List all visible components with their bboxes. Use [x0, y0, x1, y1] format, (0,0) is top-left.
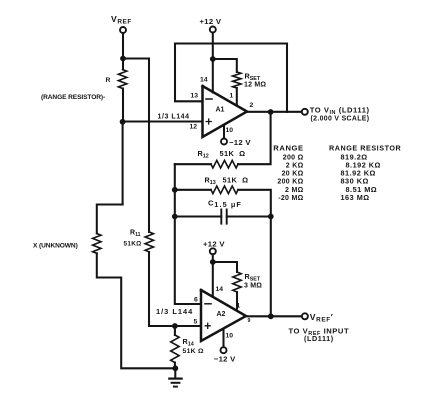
resistor RSET 12 Mohm: [233, 72, 267, 89]
pin label 12 (A1): [190, 123, 198, 130]
wire A2 output: [246, 315, 302, 317]
wire pin 5 of A2: [149, 325, 201, 327]
terminal TO VIN: [302, 105, 370, 122]
svg-text:12 MΩ: 12 MΩ: [244, 82, 266, 89]
svg-text:5: 5: [194, 318, 198, 325]
svg-text:+12 V: +12 V: [203, 239, 225, 248]
pin label 1 (A2): [237, 303, 241, 310]
svg-text:51K Ω: 51K Ω: [223, 175, 249, 184]
node +12V junction (A1): [210, 56, 216, 62]
node +12V junction (A2): [210, 259, 216, 265]
node C right junction: [268, 214, 274, 220]
svg-text:R11: R11: [130, 230, 141, 239]
pin label 10 (A1): [226, 127, 234, 134]
pin label 14 (A2): [216, 286, 224, 293]
pin label 6 (A2): [194, 296, 198, 303]
svg-text:10: 10: [226, 127, 234, 134]
wire junction to RSET (A1): [213, 59, 237, 72]
svg-text:(LD111): (LD111): [304, 334, 334, 343]
wire +12V to junction (A2): [212, 254, 214, 262]
ground: [169, 368, 181, 386]
svg-text:20 KΩ: 20 KΩ: [282, 171, 304, 178]
terminal +12V (A1): [200, 17, 222, 33]
svg-text:13: 13: [191, 93, 199, 100]
svg-text:1/3 L144: 1/3 L144: [156, 307, 193, 316]
node pin-12 junction: [120, 119, 126, 125]
svg-text:1: 1: [230, 92, 234, 99]
svg-text:−12 V: −12 V: [229, 138, 251, 147]
pin label 1 (A1): [230, 92, 234, 99]
terminal -12V (A1): [221, 138, 251, 147]
node ground junction: [172, 365, 178, 371]
pin label 13 (A1): [191, 93, 199, 100]
svg-text:R: R: [106, 77, 111, 84]
resistor R13 51K: [175, 175, 249, 193]
svg-text:VREF: VREF: [111, 14, 132, 26]
wire R11 to pin 5 of A2: [149, 252, 201, 326]
wire pin 10 of A2 to -12V: [222, 329, 224, 348]
svg-text:12: 12: [190, 123, 198, 130]
wire A1 output junction to R12: [238, 112, 271, 164]
node R13 left junction: [172, 187, 178, 193]
node A1 output junction: [268, 109, 274, 115]
svg-text:200 KΩ: 200 KΩ: [277, 179, 303, 186]
wire pin-12 junction to X resistor: [97, 205, 123, 234]
terminal VREF: [111, 14, 132, 33]
node A2 output junction: [268, 313, 274, 319]
label X (UNKNOWN): [33, 243, 78, 250]
svg-text:RANGE: RANGE: [273, 143, 303, 152]
wire C junction down to A2 output junction: [270, 217, 272, 317]
resistor R11 51K: [124, 230, 154, 253]
wire VREF terminal to junction: [122, 33, 124, 58]
node C left junction: [172, 214, 178, 220]
svg-text:2 MΩ: 2 MΩ: [285, 187, 304, 194]
svg-text:51KΩ: 51KΩ: [124, 241, 142, 248]
wire RSET to pin 1 of A2: [236, 292, 238, 309]
resistor R14 51K: [171, 326, 204, 368]
label (RANGE RESISTOR): [41, 94, 105, 101]
wire R13 to A2 output column: [238, 190, 271, 217]
wire pin-12 junction down to X branch: [122, 122, 124, 205]
svg-text:VREF′: VREF′: [310, 312, 334, 324]
svg-text:51K Ω: 51K Ω: [220, 149, 246, 158]
svg-text:A2: A2: [217, 311, 226, 318]
wire A1 feedback top rail: [175, 42, 287, 44]
svg-text:200 Ω: 200 Ω: [283, 154, 304, 161]
wire R to pin-12 junction: [122, 89, 124, 122]
resistor R12 51K: [198, 149, 246, 168]
wire pin 10 of A1 to -12V: [223, 125, 225, 139]
svg-text:R14: R14: [183, 337, 194, 348]
svg-text:−12 V: −12 V: [214, 355, 236, 364]
node pin-5 junction: [172, 323, 178, 329]
wire pin-12 junction to A1 + input: [123, 120, 203, 122]
pin label 14 (A1): [200, 77, 208, 84]
resistor RSET 3 Mohm: [233, 272, 262, 292]
wire RSET to pin 1 of A1: [236, 88, 238, 106]
wire X resistor to ground rail: [97, 253, 176, 368]
svg-text:R12: R12: [198, 149, 209, 160]
op-amp A1: [203, 86, 248, 137]
svg-text:TO VIN (LD111): TO VIN (LD111): [310, 105, 370, 116]
svg-text:1/3 L144: 1/3 L144: [158, 114, 190, 121]
wire junction to pin 14 of A2: [212, 262, 214, 297]
svg-text:(2.000 V SCALE): (2.000 V SCALE): [311, 115, 370, 122]
svg-text:51K Ω: 51K Ω: [183, 348, 205, 355]
terminal VREF prime: [289, 312, 350, 343]
svg-text:RANGE RESISTOR: RANGE RESISTOR: [329, 143, 402, 152]
pin label 5 (A2): [194, 318, 198, 325]
wire left column (R12/R13/C node) to pin 6 of A2: [175, 164, 201, 304]
svg-text:-20 MΩ: -20 MΩ: [278, 195, 303, 202]
resistor R (range resistor): [106, 70, 127, 89]
wire +12V to junction: [212, 33, 214, 60]
pin label 9 (A2 output): [248, 318, 251, 324]
wire VREF junction to R: [122, 59, 124, 70]
svg-text:1: 1: [237, 303, 241, 310]
wire junction to pin 14 of A1: [212, 59, 214, 93]
svg-text:R13: R13: [205, 175, 216, 186]
svg-text:RSET: RSET: [245, 72, 261, 83]
svg-text:14: 14: [216, 286, 224, 293]
svg-text:9: 9: [248, 318, 251, 324]
svg-text:X (UNKNOWN): X (UNKNOWN): [33, 243, 78, 250]
label 1/3 L144 (A1): [158, 114, 190, 121]
svg-text:2: 2: [250, 102, 254, 109]
svg-text:+12 V: +12 V: [200, 17, 222, 26]
svg-text:C1.5 μF: C1.5 μF: [208, 198, 242, 209]
wire A1 output: [247, 111, 302, 113]
terminal -12V (A2): [214, 347, 236, 363]
capacitor C 1.5uF: [175, 198, 271, 223]
resistor X (unknown): [93, 234, 101, 254]
node VREF junction: [120, 56, 126, 62]
wire VREF junction to R11 column: [123, 59, 149, 233]
pin label 2 (A1): [250, 102, 254, 109]
svg-text:163 MΩ: 163 MΩ: [341, 193, 370, 202]
svg-text:3 MΩ: 3 MΩ: [244, 283, 262, 290]
svg-text:2 KΩ: 2 KΩ: [286, 163, 304, 170]
terminal +12V (A2): [203, 239, 225, 254]
range table: [273, 143, 401, 202]
svg-text:RSET: RSET: [245, 272, 261, 283]
svg-text:(RANGE RESISTOR)-: (RANGE RESISTOR)-: [41, 94, 105, 101]
wire R12 to left column: [175, 163, 211, 165]
svg-text:14: 14: [200, 77, 208, 84]
op-amp A2: [201, 290, 246, 341]
svg-text:10: 10: [226, 332, 234, 339]
svg-text:6: 6: [194, 296, 198, 303]
pin label 10 (A2): [226, 332, 234, 339]
svg-text:A1: A1: [216, 107, 225, 114]
label 1/3 L144 (A2): [156, 307, 193, 316]
wire A1 feedback left vertical to pin 13: [175, 44, 203, 102]
wire A1 feedback right vertical to output: [286, 44, 288, 113]
wire junction to RSET (A2): [213, 262, 237, 272]
